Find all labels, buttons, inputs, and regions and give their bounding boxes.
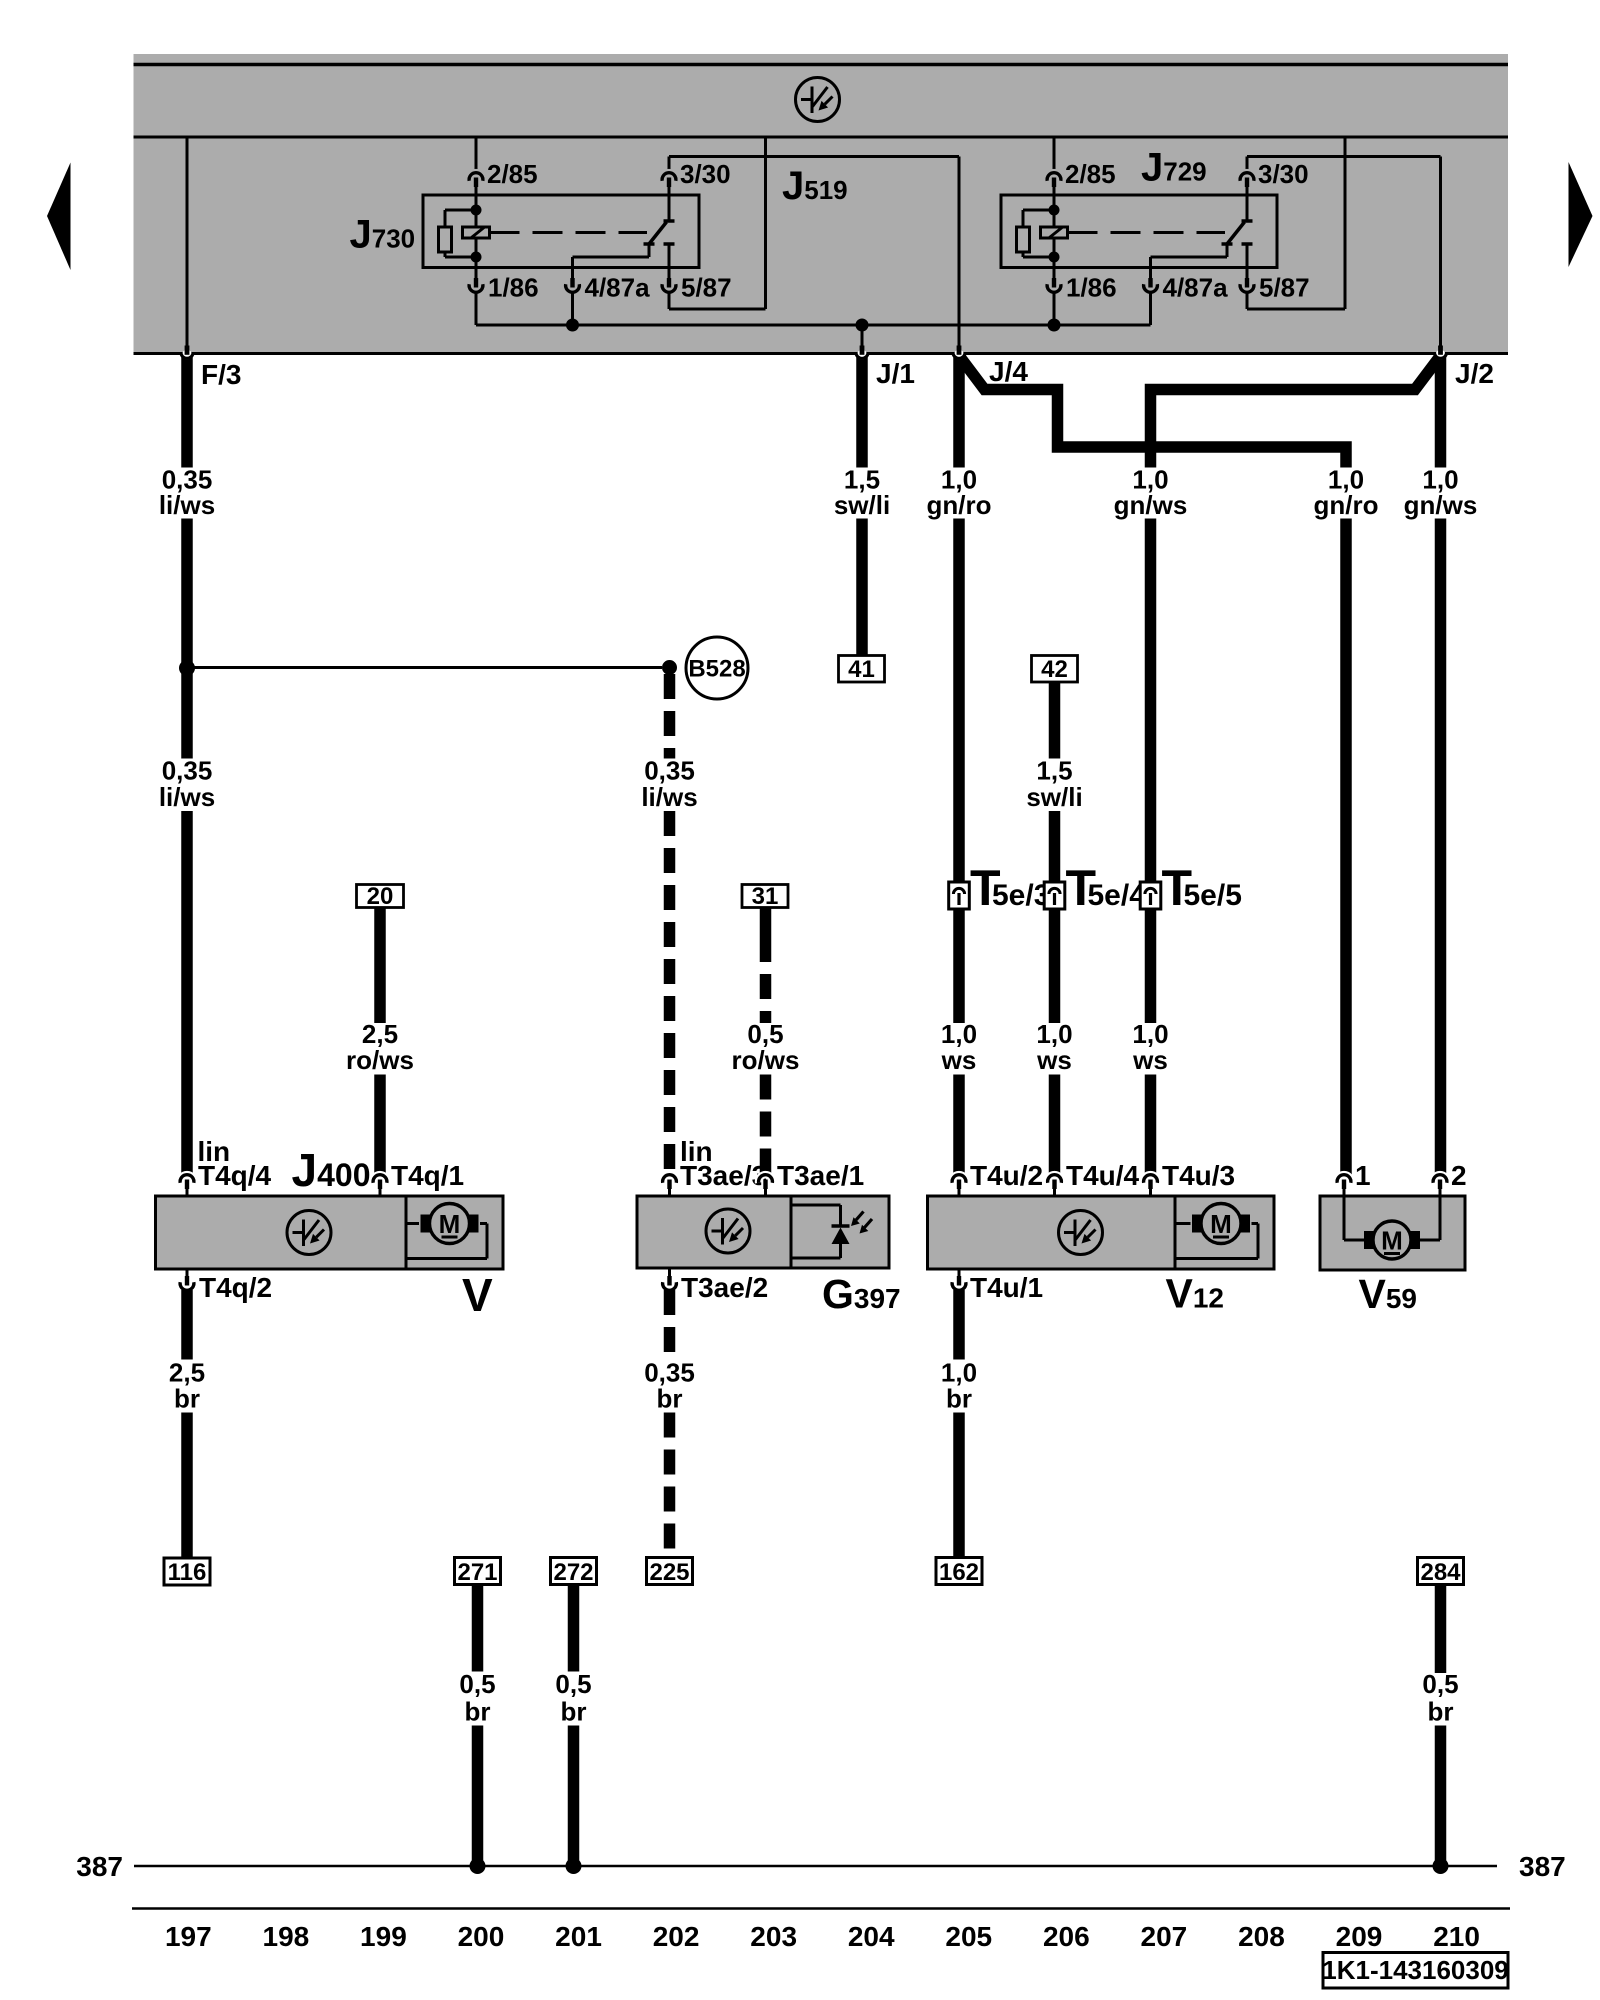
G397 photodiode [791, 1204, 841, 1207]
bus band bottom border [134, 352, 1509, 355]
relay J729 pin 4/87a [1149, 257, 1152, 280]
svg-text:2/85: 2/85 [1065, 159, 1116, 189]
V12 electronics symbol [1059, 1211, 1103, 1255]
svg-text:T4u/1: T4u/1 [970, 1272, 1043, 1303]
connector T5e/3 [949, 882, 970, 909]
wire J/4 1,0 gn/ro [953, 354, 965, 468]
connector F/3 feed line [186, 137, 189, 352]
svg-text:207: 207 [1141, 1921, 1188, 1952]
svg-text:T4u/3: T4u/3 [1162, 1160, 1235, 1191]
svg-text:lin: lin [680, 1136, 713, 1167]
wire J/2 1,0 gn/ws [1435, 354, 1447, 468]
svg-text:205: 205 [945, 1921, 992, 1952]
control unit J400 with motor V (wiper motor) [156, 1196, 504, 1269]
relay J729 coil-switch link (dashed) [1068, 231, 1226, 234]
wire tap to B528 [187, 666, 662, 669]
svg-text:lin: lin [198, 1136, 231, 1167]
pin T4q/4 [180, 1175, 194, 1183]
sensor G397 (rain/light sensor) [637, 1196, 889, 1268]
relay J730 30/87 feed loop [669, 155, 959, 158]
svg-text:gn/ws: gn/ws [1114, 490, 1188, 520]
wire 20 to T4q/1 2,5 ro/ws [374, 908, 386, 1024]
svg-text:J/4: J/4 [989, 356, 1028, 387]
motor V59 (washer pump) [1320, 1196, 1465, 1270]
wire F/3 0,35 li/ws lower [181, 519, 193, 759]
wire 272 to ground 0,5 br [568, 1585, 580, 1672]
relay J730 pin 1/86 [475, 257, 478, 280]
motor V59 symbol [1373, 1221, 1411, 1259]
wire J/4 branch to gn/ro right (staircase) [960, 357, 1346, 468]
svg-text:br: br [657, 1384, 683, 1414]
ground terminal box 162 [936, 1558, 982, 1585]
svg-text:204: 204 [848, 1921, 895, 1952]
pin 1 (V59) [1337, 1175, 1351, 1183]
svg-text:31: 31 [752, 883, 779, 910]
svg-text:ro/ws: ro/ws [732, 1045, 800, 1075]
svg-text:J400: J400 [292, 1144, 371, 1196]
svg-text:20: 20 [367, 883, 394, 910]
connector F/3 [182, 350, 192, 360]
svg-text:li/ws: li/ws [159, 782, 215, 812]
ground terminal box 116 [164, 1558, 210, 1585]
svg-text:V12: V12 [1166, 1271, 1225, 1317]
svg-text:42: 42 [1041, 656, 1068, 683]
pin T4u/1 [952, 1282, 966, 1290]
wire J729 output drop [1439, 157, 1442, 352]
svg-text:br: br [1428, 1697, 1454, 1727]
pin T3ae/1 [759, 1175, 773, 1183]
svg-text:br: br [946, 1384, 972, 1414]
gray supply bus band (J519 area) [134, 54, 1509, 355]
svg-text:272: 272 [553, 1559, 593, 1586]
svg-text:ws: ws [941, 1045, 977, 1075]
pin T4u/3 [1144, 1175, 1158, 1183]
wire B528 to T3ae/3 0,35 li/ws (dashed) [664, 674, 676, 759]
relay J730 coil resistor [445, 209, 476, 212]
wire 1,0 gn/ws to T5e/5 [1145, 519, 1157, 884]
wire 284 to ground 0,5 br [1435, 1585, 1447, 1674]
pin T3ae/3 [663, 1175, 677, 1183]
diagram code box 1K1-143160309 [1323, 1953, 1508, 1989]
motor V symbol [430, 1204, 470, 1244]
svg-text:387: 387 [76, 1851, 123, 1882]
bus band top border [134, 63, 1509, 67]
svg-text:sw/li: sw/li [834, 490, 890, 520]
svg-text:J/2: J/2 [1455, 358, 1494, 389]
connector T5e/4 [1044, 882, 1065, 909]
svg-text:1/86: 1/86 [488, 273, 539, 303]
connector J/2 [1435, 350, 1445, 360]
svg-text:J/1: J/1 [876, 358, 915, 389]
relay J730 [423, 195, 699, 268]
ground junction dot (284) [1433, 1858, 1449, 1874]
svg-text:M: M [439, 1209, 461, 1239]
relay J730 coil-switch link (dashed) [490, 231, 648, 234]
ground junction dot (272) [566, 1858, 582, 1874]
relay J729 pin 3/30 [1246, 157, 1249, 173]
control unit with motor V12 (rear wiper) [928, 1196, 1275, 1269]
svg-text:5e/3: 5e/3 [992, 879, 1050, 912]
left nav arrow [47, 163, 71, 271]
connector T5e/5 [1140, 882, 1161, 909]
connector J/4 [954, 350, 964, 360]
svg-text:br: br [465, 1697, 491, 1727]
svg-text:1: 1 [1355, 1160, 1371, 1191]
svg-text:162: 162 [939, 1559, 979, 1586]
svg-text:gn/ws: gn/ws [1404, 490, 1478, 520]
svg-text:198: 198 [263, 1921, 310, 1952]
motor V12 symbol [1201, 1204, 1241, 1244]
bus electronics symbol [796, 78, 840, 122]
svg-text:0,5: 0,5 [1422, 1669, 1458, 1699]
label circle B528 [686, 637, 748, 699]
svg-text:br: br [174, 1384, 200, 1414]
svg-text:gn/ro: gn/ro [927, 490, 992, 520]
svg-text:5/87: 5/87 [1259, 273, 1310, 303]
relay J729 coil [1049, 205, 1060, 216]
relay J729 30/87 feed loop [1247, 155, 1441, 158]
svg-text:225: 225 [649, 1559, 689, 1586]
svg-text:5e/4: 5e/4 [1088, 879, 1147, 912]
svg-text:T4u/2: T4u/2 [970, 1160, 1043, 1191]
pin T4u/2 [952, 1175, 966, 1183]
node line 86/87a common (to J/1) [476, 324, 1151, 327]
svg-text:T3ae/2: T3ae/2 [681, 1272, 768, 1303]
svg-text:3/30: 3/30 [680, 159, 731, 189]
pin T4u/4 [1048, 1175, 1062, 1183]
relay J730 pin 4/87a [571, 257, 574, 280]
pin T4q/2 [180, 1282, 194, 1290]
wire 271 to ground 0,5 br [472, 1585, 484, 1672]
svg-text:5e/5: 5e/5 [1184, 879, 1242, 912]
junction dot J/1 [856, 319, 869, 332]
svg-text:284: 284 [1420, 1559, 1461, 1586]
svg-text:199: 199 [360, 1921, 407, 1952]
relay J729 coil resistor [1023, 209, 1054, 212]
svg-text:li/ws: li/ws [159, 490, 215, 520]
svg-text:3/30: 3/30 [1258, 159, 1309, 189]
svg-text:1/86: 1/86 [1066, 273, 1117, 303]
relay J729 [1001, 195, 1277, 268]
wire T4u/1 1,0 br [953, 1290, 965, 1360]
svg-text:F/3: F/3 [201, 359, 241, 390]
terminal box 41 [839, 656, 885, 683]
svg-text:206: 206 [1043, 1921, 1090, 1952]
svg-text:0,5: 0,5 [459, 1669, 495, 1699]
ground terminal box 272 [551, 1558, 597, 1585]
svg-text:200: 200 [458, 1921, 505, 1952]
svg-text:V: V [462, 1269, 493, 1321]
svg-text:203: 203 [750, 1921, 797, 1952]
svg-text:T3ae/1: T3ae/1 [777, 1160, 864, 1191]
svg-text:4/87a: 4/87a [1163, 273, 1229, 303]
wire J/1 1,5 sw/li [856, 354, 868, 468]
svg-text:li/ws: li/ws [641, 782, 697, 812]
svg-text:V59: V59 [1359, 1271, 1418, 1317]
wire 31 to T3ae/1 0,5 ro/ws (dashed) [760, 908, 772, 938]
relay J730 switch [664, 219, 675, 223]
svg-text:1,5: 1,5 [1036, 756, 1072, 786]
svg-text:T4u/4: T4u/4 [1066, 1160, 1140, 1191]
wire J/1 drop inside band [861, 325, 864, 352]
svg-text:2/85: 2/85 [487, 159, 538, 189]
wire F/3 0,35 li/ws upper [181, 354, 193, 468]
svg-text:sw/li: sw/li [1026, 782, 1082, 812]
svg-text:5/87: 5/87 [681, 273, 732, 303]
pin T4q/1 [373, 1175, 387, 1183]
wire T4q/2 2,5 br [181, 1290, 193, 1360]
svg-text:202: 202 [653, 1921, 700, 1952]
svg-text:0,35: 0,35 [162, 756, 213, 786]
svg-text:116: 116 [168, 1559, 207, 1586]
terminal box 31 [742, 885, 788, 908]
svg-text:br: br [561, 1697, 587, 1727]
G397 light arrows [856, 1212, 864, 1221]
wire T3ae/2 0,35 br (dashed) [664, 1290, 676, 1360]
ground terminal box 271 [455, 1558, 501, 1585]
svg-text:209: 209 [1336, 1921, 1383, 1952]
relay J729 switch [1242, 219, 1253, 223]
junction dot J730 4/87a [566, 319, 579, 332]
wire J730 output drop [958, 157, 961, 352]
ground terminal box 284 [1418, 1558, 1464, 1585]
wire 1,0 gn/ro to V59 pin1 [1340, 519, 1352, 1177]
pin 2 (V59) [1433, 1175, 1447, 1183]
ground junction dot (271) [470, 1858, 486, 1874]
junction dot J729 1/86 [1048, 319, 1061, 332]
svg-text:ro/ws: ro/ws [346, 1045, 414, 1075]
svg-text:201: 201 [555, 1921, 602, 1952]
svg-text:gn/ro: gn/ro [1314, 490, 1379, 520]
svg-text:ws: ws [1132, 1045, 1168, 1075]
pin T3ae/2 [663, 1282, 677, 1290]
wire J/2 branch to gn/ws middle [1151, 357, 1440, 468]
relay J730 pin 5/87 [664, 242, 675, 246]
svg-text:271: 271 [457, 1559, 497, 1586]
svg-text:197: 197 [165, 1921, 212, 1952]
svg-text:M: M [1381, 1226, 1403, 1256]
ground terminal box 225 [647, 1558, 693, 1585]
relay J729 pin 2/85 [1053, 137, 1056, 172]
relay J730 pin 2/85 [475, 137, 478, 172]
relay J729 pin 5/87 [1242, 242, 1253, 246]
B528 terminal dot [662, 660, 677, 675]
relay J730 pin 3/30 [668, 157, 671, 173]
relay J730 coil [471, 205, 482, 216]
relay J729 pin 1/86 [1053, 257, 1056, 280]
svg-text:2: 2 [1451, 1160, 1467, 1191]
svg-text:G397: G397 [822, 1271, 901, 1317]
svg-text:T4q/1: T4q/1 [391, 1160, 464, 1191]
svg-text:0,35: 0,35 [644, 756, 695, 786]
track ruler line [132, 1907, 1510, 1910]
ground rail 387 [134, 1865, 1497, 1868]
bus inner 30-rail line [134, 136, 1509, 139]
svg-text:4/87a: 4/87a [585, 273, 651, 303]
svg-text:B528: B528 [688, 656, 745, 683]
G397 electronics symbol [706, 1209, 750, 1253]
svg-text:M: M [1210, 1209, 1232, 1239]
svg-text:387: 387 [1519, 1851, 1566, 1882]
svg-text:0,5: 0,5 [555, 1669, 591, 1699]
junction dot F/3 / B528 tap [179, 660, 195, 676]
terminal box 20 [357, 885, 404, 908]
svg-text:ws: ws [1036, 1045, 1072, 1075]
terminal box 42 [1032, 656, 1078, 683]
wire 42 to T5e/4 1,5 sw/li [1049, 682, 1061, 759]
right nav arrow [1569, 162, 1593, 267]
J400 electronics symbol [287, 1211, 331, 1255]
svg-text:210: 210 [1433, 1921, 1480, 1952]
svg-text:208: 208 [1238, 1921, 1285, 1952]
svg-text:41: 41 [848, 656, 875, 683]
svg-text:T4q/2: T4q/2 [199, 1272, 272, 1303]
svg-text:1K1-143160309: 1K1-143160309 [1322, 1955, 1509, 1985]
connector J/1 [857, 350, 867, 360]
